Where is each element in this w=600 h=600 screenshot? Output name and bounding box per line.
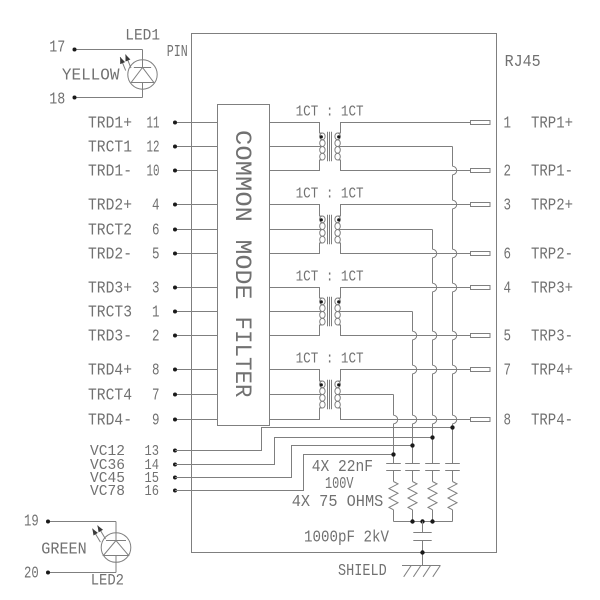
svg-text:19: 19 — [24, 513, 39, 532]
svg-text:TRCT2: TRCT2 — [88, 222, 132, 241]
svg-text:LED2: LED2 — [91, 571, 124, 589]
svg-text:8: 8 — [504, 412, 512, 431]
svg-text:12: 12 — [147, 139, 160, 158]
svg-text:MODE: MODE — [229, 240, 255, 300]
svg-text:TRP4+: TRP4+ — [531, 362, 573, 381]
svg-text:TRD1-: TRD1- — [88, 163, 132, 182]
svg-text:FILTER: FILTER — [229, 317, 255, 398]
svg-text:100V: 100V — [325, 475, 354, 494]
svg-text:TRD4-: TRD4- — [88, 412, 132, 431]
svg-text:TRD1+: TRD1+ — [88, 115, 132, 134]
svg-text:10: 10 — [147, 163, 160, 182]
svg-text:PIN: PIN — [167, 43, 188, 62]
svg-text:RJ45: RJ45 — [505, 53, 541, 72]
svg-text:VC78: VC78 — [90, 483, 125, 500]
svg-text:5: 5 — [504, 328, 512, 347]
svg-text:8: 8 — [152, 362, 160, 381]
svg-text:4: 4 — [152, 197, 160, 216]
svg-text:1CT : 1CT: 1CT : 1CT — [296, 186, 364, 203]
svg-text:18: 18 — [49, 91, 65, 110]
svg-text:TRD3-: TRD3- — [88, 328, 132, 347]
svg-text:TRP3+: TRP3+ — [531, 280, 573, 299]
svg-text:7: 7 — [504, 362, 512, 381]
svg-text:17: 17 — [49, 39, 65, 58]
svg-text:SHIELD: SHIELD — [338, 562, 387, 581]
svg-text:3: 3 — [504, 197, 512, 216]
svg-text:GREEN: GREEN — [41, 541, 86, 560]
svg-text:20: 20 — [24, 564, 39, 583]
svg-text:YELLOW: YELLOW — [62, 67, 120, 86]
svg-text:5: 5 — [152, 246, 160, 265]
svg-text:4: 4 — [504, 280, 512, 299]
svg-text:TRCT1: TRCT1 — [88, 139, 132, 158]
svg-text:TRP1-: TRP1- — [531, 163, 573, 182]
svg-text:11: 11 — [147, 115, 160, 134]
svg-text:3: 3 — [152, 280, 160, 299]
svg-text:TRD4+: TRD4+ — [88, 362, 132, 381]
svg-text:6: 6 — [504, 246, 512, 265]
svg-text:9: 9 — [152, 412, 160, 431]
svg-text:1CT : 1CT: 1CT : 1CT — [296, 104, 364, 121]
svg-text:16: 16 — [145, 483, 160, 500]
svg-text:TRD2-: TRD2- — [88, 246, 132, 265]
svg-text:LED1: LED1 — [125, 27, 160, 45]
svg-text:TRD2+: TRD2+ — [88, 197, 132, 216]
svg-text:TRCT3: TRCT3 — [88, 304, 132, 323]
svg-text:TRP2-: TRP2- — [531, 246, 573, 265]
svg-text:1CT : 1CT: 1CT : 1CT — [296, 351, 364, 368]
svg-text:TRCT4: TRCT4 — [88, 387, 132, 406]
svg-text:TRP4-: TRP4- — [531, 412, 573, 431]
svg-text:2: 2 — [504, 163, 512, 182]
svg-text:1000pF 2kV: 1000pF 2kV — [304, 528, 390, 547]
svg-text:2: 2 — [152, 328, 160, 347]
svg-text:COMMON: COMMON — [229, 130, 255, 222]
svg-text:4X 75 OHMS: 4X 75 OHMS — [292, 493, 384, 512]
svg-text:6: 6 — [152, 222, 160, 241]
svg-text:1: 1 — [504, 115, 512, 134]
svg-text:TRP2+: TRP2+ — [531, 197, 573, 216]
svg-text:7: 7 — [152, 387, 160, 406]
svg-text:TRP3-: TRP3- — [531, 328, 573, 347]
svg-text:1CT : 1CT: 1CT : 1CT — [296, 269, 364, 286]
svg-text:TRP1+: TRP1+ — [531, 115, 573, 134]
svg-text:1: 1 — [152, 304, 160, 323]
svg-text:TRD3+: TRD3+ — [88, 280, 132, 299]
